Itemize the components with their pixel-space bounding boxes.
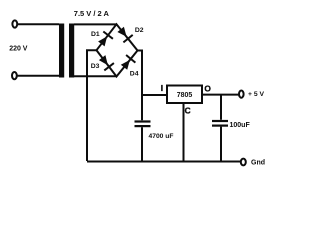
- svg-text:D1: D1: [91, 31, 100, 38]
- svg-text:+ 5 V: + 5 V: [248, 91, 265, 98]
- svg-text:D2: D2: [135, 27, 144, 34]
- svg-text:220 V: 220 V: [9, 45, 28, 52]
- svg-text:D3: D3: [91, 63, 100, 70]
- svg-text:4700 uF: 4700 uF: [149, 133, 174, 140]
- svg-text:O: O: [204, 83, 211, 93]
- svg-text:I: I: [161, 83, 163, 93]
- svg-text:7.5 V / 2 A: 7.5 V / 2 A: [74, 9, 110, 18]
- svg-text:C: C: [185, 105, 191, 115]
- svg-text:D4: D4: [130, 70, 139, 77]
- svg-text:7805: 7805: [177, 92, 193, 99]
- svg-text:100uF: 100uF: [230, 122, 251, 129]
- svg-text:Gnd: Gnd: [251, 159, 265, 166]
